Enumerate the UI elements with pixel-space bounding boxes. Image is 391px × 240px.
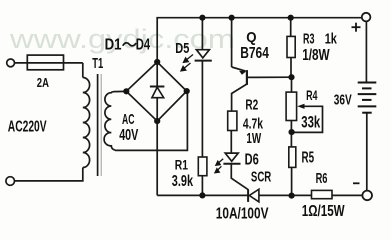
node bridge top: [154, 59, 160, 65]
wire R2 to D6: [230, 131, 232, 154]
svg-text:R2: R2: [245, 97, 258, 113]
node bottom bus R5: [289, 193, 295, 199]
svg-text:1W: 1W: [246, 130, 261, 146]
svg-text:10A/100V: 10A/100V: [216, 205, 269, 222]
wire primary bottom lead: [15, 168, 83, 181]
svg-text:R6: R6: [316, 170, 328, 187]
svg-text:D5: D5: [175, 40, 189, 57]
svg-text:R1: R1: [175, 157, 188, 173]
LED D5 arrows: [181, 55, 223, 173]
SCR triangle: [249, 189, 259, 202]
transistor Q collector: [232, 84, 247, 111]
svg-text:Q: Q: [246, 28, 256, 45]
D5 anode wire: [201, 18, 203, 50]
terminal output minus: [362, 191, 372, 201]
node top bus D5: [199, 15, 205, 21]
svg-text:B764: B764: [240, 44, 269, 62]
svg-text:T1: T1: [92, 55, 103, 72]
battery 36V plates: [358, 83, 377, 113]
svg-text:1Ω/15W: 1Ω/15W: [302, 202, 345, 219]
wire bottom bus: [157, 194, 248, 196]
resistor R5: [289, 147, 296, 168]
transistor Q emitter arrowhead: [239, 71, 246, 75]
wire secondary top to bridge left vertex: [114, 90, 127, 92]
svg-text:3.9k: 3.9k: [172, 172, 194, 189]
node bridge left: [123, 88, 129, 94]
wire top bus: [157, 18, 362, 62]
Q emitter wire: [231, 18, 233, 67]
fuse 2A: [27, 55, 63, 70]
transistor Q base bar: [246, 70, 248, 85]
node top bus R3: [288, 15, 294, 21]
R4 wiper arrowhead: [297, 104, 304, 109]
wire D5 to R1: [201, 61, 203, 157]
transformer T1 secondary winding: [104, 92, 115, 151]
resistor R3: [287, 36, 295, 57]
svg-text:1/8W: 1/8W: [302, 46, 329, 63]
node bridge right: [184, 88, 190, 94]
LED D6 arrows: [218, 159, 224, 164]
svg-text:D6: D6: [245, 151, 260, 168]
potentiometer R4 body: [286, 92, 297, 120]
node top bus Q: [229, 15, 235, 21]
bridge inner diode: [156, 62, 158, 87]
battery bottom lead: [366, 113, 368, 191]
svg-text:R3: R3: [303, 30, 315, 47]
base wire to R3/R4 junction: [248, 76, 292, 78]
svg-text:R5: R5: [302, 148, 315, 166]
wire R4 to R5: [290, 121, 292, 147]
node R4 bottom: [289, 129, 295, 135]
LED D5: [196, 50, 209, 58]
svg-text:1k: 1k: [325, 30, 338, 47]
resistor R2: [228, 111, 237, 130]
wire bridge bottom to lower bus: [156, 121, 158, 195]
resistor R1: [198, 157, 207, 176]
wire R3 to junction: [290, 58, 292, 78]
plus sign: [352, 23, 361, 184]
wire AC input top to fuse: [14, 62, 82, 64]
node bridge bottom: [154, 118, 160, 124]
wire R1 to bottom bus: [201, 176, 203, 196]
svg-text:SCR: SCR: [251, 169, 271, 185]
R3 top wire: [290, 18, 292, 37]
terminal output plus: [362, 13, 371, 22]
svg-text:33k: 33k: [301, 113, 320, 132]
LED D6: [225, 153, 238, 161]
transistor Q emitter: [232, 67, 246, 71]
resistor R6: [312, 190, 333, 198]
transformer core: [97, 74, 99, 176]
core line 2: [100, 74, 102, 176]
wire junction to R4: [291, 77, 293, 92]
minus sign: [353, 182, 360, 184]
svg-text:36V: 36V: [334, 92, 352, 108]
svg-text:AC220V: AC220V: [8, 117, 47, 135]
bridge rectifier D1-D4 diamond: [126, 62, 186, 121]
transformer T1 primary winding: [83, 78, 90, 168]
svg-text:R4: R4: [306, 87, 318, 104]
node base R3 R4: [288, 74, 294, 80]
wire R5 to bottom bus: [291, 167, 293, 195]
SCR gate wire: [231, 164, 248, 190]
wire primary top lead: [82, 63, 84, 78]
SCR cathode bar: [247, 189, 249, 202]
R4 wiper wire loop: [294, 106, 323, 132]
terminal input top: [7, 59, 15, 67]
terminal input bottom: [6, 177, 15, 186]
battery top lead: [365, 22, 367, 83]
node bottom bus R1: [199, 192, 205, 198]
svg-text:40V: 40V: [119, 126, 138, 143]
wire secondary bottom to bridge right vertex: [115, 91, 187, 150]
svg-text:D4: D4: [136, 36, 151, 53]
svg-text:D1: D1: [105, 36, 122, 53]
svg-text:2A: 2A: [37, 76, 49, 90]
